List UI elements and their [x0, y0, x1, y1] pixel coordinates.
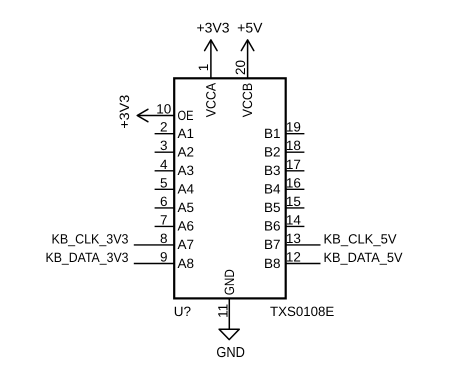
svg-text:2: 2: [160, 120, 168, 135]
power flag +5V (top): [241, 40, 254, 51]
svg-text:9: 9: [160, 250, 168, 265]
svg-text:KB_CLK_5V: KB_CLK_5V: [324, 231, 397, 246]
pin 17 B3: [285, 170, 304, 172]
pin 9 A8: [134, 263, 175, 265]
svg-text:6: 6: [160, 194, 168, 209]
pin 13 B7: [285, 244, 321, 246]
pin 7 A6: [155, 225, 175, 227]
svg-text:17: 17: [286, 157, 301, 172]
svg-text:4: 4: [160, 157, 168, 172]
svg-text:U?: U?: [174, 304, 191, 319]
svg-text:12: 12: [286, 250, 301, 265]
svg-text:A8: A8: [178, 256, 195, 271]
svg-text:14: 14: [286, 212, 302, 227]
svg-text:KB_DATA_3V3: KB_DATA_3V3: [46, 250, 129, 265]
svg-text:18: 18: [286, 138, 301, 153]
svg-text:B3: B3: [264, 163, 281, 178]
svg-text:11: 11: [215, 304, 230, 318]
svg-text:OE: OE: [178, 108, 194, 123]
svg-text:GND: GND: [216, 345, 245, 361]
svg-text:A2: A2: [178, 145, 195, 160]
IC U? body (TXS0108E level shifter): [174, 78, 286, 298]
svg-text:B5: B5: [264, 200, 281, 215]
svg-text:10: 10: [156, 102, 171, 117]
svg-text:B4: B4: [264, 182, 281, 197]
svg-text:B1: B1: [264, 126, 281, 141]
power flag +3V3 (left, OE): [137, 109, 148, 121]
svg-text:+3V3: +3V3: [196, 19, 229, 35]
svg-text:B7: B7: [264, 237, 281, 252]
wire VCCA to +3V3: [210, 40, 212, 79]
svg-text:A1: A1: [178, 126, 195, 141]
pin 2 A1: [155, 133, 175, 135]
pin 6 A5: [155, 207, 175, 209]
wire OE to +3V3: [137, 115, 175, 117]
svg-text:7: 7: [160, 212, 168, 227]
power flag +3V3 (top): [205, 40, 218, 51]
svg-text:B8: B8: [264, 256, 281, 271]
svg-text:20: 20: [233, 60, 248, 75]
ground: [219, 329, 239, 339]
wire VCCB to +5V: [247, 40, 249, 79]
pin 15 B5: [285, 207, 304, 209]
svg-text:A7: A7: [178, 237, 195, 252]
pin 8 A7: [134, 244, 175, 246]
svg-text:19: 19: [286, 120, 301, 135]
pin 3 A2: [155, 151, 175, 153]
wire GND pin to ground symbol: [228, 298, 230, 329]
svg-text:B2: B2: [264, 145, 281, 160]
svg-text:15: 15: [286, 194, 301, 209]
pin 18 B2: [285, 151, 304, 153]
svg-text:1: 1: [196, 64, 211, 72]
svg-text:8: 8: [160, 231, 168, 246]
svg-text:KB_CLK_3V3: KB_CLK_3V3: [52, 231, 129, 246]
svg-text:+3V3: +3V3: [117, 95, 132, 129]
pin 5 A4: [155, 188, 175, 190]
svg-text:+5V: +5V: [237, 19, 263, 35]
pin 14 B6: [285, 225, 304, 227]
pin 19 B1: [285, 133, 304, 135]
svg-text:B6: B6: [264, 219, 281, 234]
svg-text:KB_DATA_5V: KB_DATA_5V: [324, 250, 403, 265]
svg-text:16: 16: [286, 175, 301, 190]
svg-text:VCCA: VCCA: [204, 83, 219, 118]
pin 4 A3: [155, 170, 175, 172]
svg-text:TXS0108E: TXS0108E: [270, 304, 334, 319]
svg-text:A5: A5: [178, 200, 195, 215]
svg-text:A3: A3: [178, 163, 195, 178]
svg-text:3: 3: [160, 138, 168, 153]
svg-text:5: 5: [160, 175, 168, 190]
svg-text:A6: A6: [178, 219, 195, 234]
pin 16 B4: [285, 188, 304, 190]
pin 12 B8: [285, 263, 321, 265]
svg-text:VCCB: VCCB: [240, 83, 255, 118]
svg-text:GND: GND: [222, 269, 237, 295]
svg-text:A4: A4: [178, 182, 195, 197]
svg-text:13: 13: [286, 231, 301, 246]
